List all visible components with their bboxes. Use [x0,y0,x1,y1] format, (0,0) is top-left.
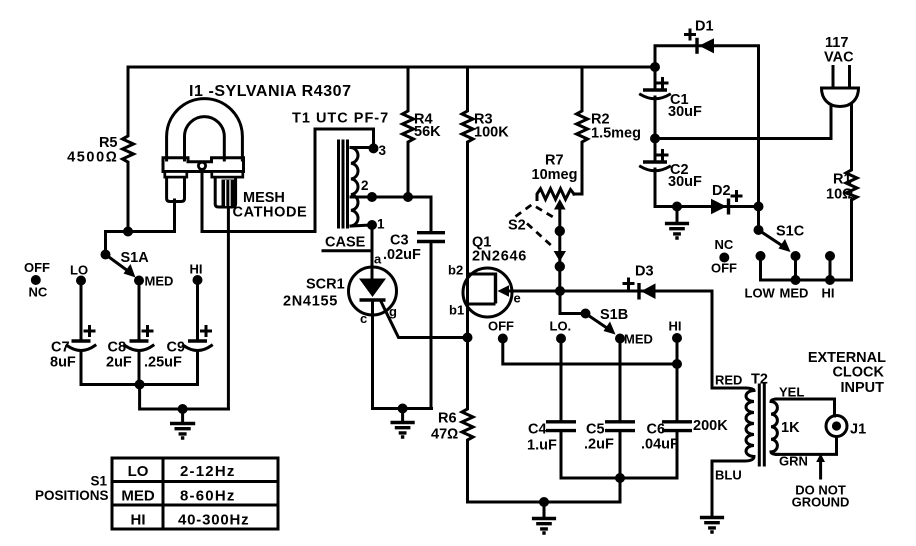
svg-text:INPUT: INPUT [841,380,885,396]
svg-text:MED: MED [145,274,174,289]
wire mesh cathode down to ground rail [227,204,230,409]
svg-text:S1: S1 [90,474,107,489]
wire S1B OFF/HI/C6 rail [503,339,677,365]
SCR1 2N4155 body [349,267,397,315]
svg-text:8uF: 8uF [50,355,76,371]
capacitor C7 8uF [80,281,83,385]
lamp I1 right leg [215,172,235,208]
capacitor C6 .04uF plates [662,422,692,431]
wire lamp starter probe to T1 pin 3 [202,129,374,232]
svg-text:b1: b1 [449,303,464,318]
svg-text:R1: R1 [833,172,852,188]
node R4 bottom junction [403,192,413,202]
wire S1B HI drop [676,338,679,364]
diode D1 [695,38,698,54]
node emitter junction [555,286,565,296]
node S1C MED [791,251,801,261]
wire C2 ground to D2 to D1 junction [677,205,759,208]
plug 117 VAC body [822,88,859,107]
wire C4 column [561,339,620,479]
ground symbol SCR [401,409,404,422]
wire C6 column [620,364,677,478]
svg-text:2N2646: 2N2646 [472,249,527,265]
resistor R2 1.5meg [574,67,588,194]
svg-text:C9: C9 [167,340,186,356]
svg-text:2N4155: 2N4155 [283,294,338,310]
svg-text:40-300Hz: 40-300Hz [178,512,249,529]
transformer T2 core [759,385,764,465]
node R5 / lamp anode junction [123,227,133,237]
svg-text:.02uF: .02uF [383,247,421,263]
switch S1C arm [759,230,783,246]
svg-text:8-60Hz: 8-60Hz [180,488,236,505]
resistor R5 4500Ω [123,67,134,232]
node S1A MED [134,276,144,286]
svg-text:1.5meg: 1.5meg [591,126,641,142]
wire S1C HI drop [829,256,832,280]
capacitor C2 30uF [643,160,667,163]
svg-text:HI: HI [131,512,146,529]
transformer T2 secondary winding [771,399,778,454]
wire top supply rail [128,66,655,69]
wire rail to ground [140,385,229,410]
node gate/b1/R6 junction [463,333,473,343]
resistor R3 100K column [462,67,473,338]
svg-text:2uF: 2uF [106,355,132,371]
wire SCR anode from T1 pin1 [371,225,374,280]
svg-text:c: c [360,311,367,326]
ground symbol left caps [181,409,184,422]
svg-text:D3: D3 [635,264,654,280]
svg-text:200K: 200K [693,418,728,434]
wire T2 BLU to ground [712,461,744,516]
svg-text:POSITIONS: POSITIONS [35,488,109,503]
svg-text:S1C: S1C [776,224,805,240]
node SCR ground junction [398,404,408,414]
wire S1C rail [761,256,852,280]
svg-text:SCR1: SCR1 [306,277,345,293]
transformer T2 primary winding [744,388,754,461]
svg-text:C5: C5 [586,422,605,438]
svg-text:CLOCK: CLOCK [832,365,884,381]
jack J1 [826,416,847,437]
switch S1C pivot node [754,225,764,235]
transformer T1 core [339,141,348,227]
ground symbol T2 BLU [700,518,724,533]
wire S1C MED drop [794,256,797,280]
node T1 pin 2 [367,192,377,202]
lamp I1 collar base [163,158,244,172]
wire C1 leads [654,67,657,139]
svg-text:LOW: LOW [745,286,776,301]
svg-text:I1 -SYLVANIA R4307: I1 -SYLVANIA R4307 [189,83,352,100]
svg-text:T2: T2 [751,372,768,388]
svg-text:4500Ω: 4500Ω [67,150,118,166]
switch S1A pivot node [101,250,111,260]
lamp I1 probe terminal circle [198,162,205,169]
ground symbol R6 rail [543,502,546,517]
wire S2 wiper column [558,207,561,291]
resistor R6 47Ω column [462,338,473,503]
node C1/C2 plug junction [650,134,660,144]
svg-text:10Ω: 10Ω [826,187,853,203]
node C8 bottom rail junction [135,380,145,390]
switch S2 contact node lower [555,261,565,271]
switch S2 wiper arrow [554,199,566,210]
wire lamp left lead [128,200,175,232]
transformer T1 winding [351,148,358,227]
wire S1B pivot link [560,291,585,314]
wire emitter line Q1 to D3 to T2 RED [508,291,746,388]
wire C5 column [619,339,622,479]
wire T1 pin1 tap [351,225,372,226]
lamp I1 outer tube [167,99,243,160]
wire plug line to C1/C2 junction [655,103,831,139]
ground symbol C2 [676,207,679,223]
svg-text:1.uF: 1.uF [527,438,557,454]
svg-text:NC: NC [29,285,48,300]
node S1C rail HI [825,275,835,285]
node S1A OFF NC [31,275,41,285]
switch S1B arm [586,314,608,329]
svg-text:10meg: 10meg [532,167,578,183]
svg-text:3: 3 [379,143,387,158]
svg-text:OFF: OFF [711,261,737,276]
wire C2 leads [655,139,677,207]
wire C3 bottom [430,243,433,409]
node T1 pin 3 [369,143,379,153]
capacitor C1 30uF [643,88,667,91]
svg-text:S2: S2 [508,218,526,234]
svg-text:YEL: YEL [779,385,804,400]
wire T2 YEL to J1 [776,399,835,416]
svg-text:GROUND: GROUND [792,495,850,510]
lamp I1 mesh cathode element [222,180,235,207]
svg-text:.25uF: .25uF [144,355,182,371]
svg-text:OFF: OFF [488,319,514,334]
do-not-ground pointer arrow [819,460,822,478]
svg-text:S1A: S1A [121,250,150,266]
node S1B HI [672,333,682,343]
svg-text:C7: C7 [51,340,70,356]
node S1B MED [615,334,625,344]
svg-text:S1B: S1B [600,307,628,323]
svg-text:NC: NC [715,237,734,252]
diode D2 [727,199,730,215]
node S1A LO [76,276,86,286]
svg-text:HI: HI [190,262,203,277]
potentiometer R7 10meg horizontal [537,189,574,200]
lamp I1 collar skirts [165,172,187,178]
svg-text:e: e [514,291,521,306]
svg-text:VAC: VAC [824,50,854,66]
resistor R1 10Ω column from plug [846,103,857,280]
svg-text:BLU: BLU [715,468,742,483]
node ground junction left [178,404,188,414]
svg-text:.04uF: .04uF [641,437,679,453]
capacitor C9 .25uF [196,280,199,385]
svg-text:LO: LO [70,263,88,278]
node S1C NC [719,253,729,263]
svg-text:D1: D1 [695,19,714,35]
capacitor C8 2uF [138,281,141,385]
svg-text:CATHODE: CATHODE [233,205,308,221]
wire T2 GRN to J1 [776,437,837,454]
node S1C rail MED [791,275,801,285]
svg-text:C8: C8 [108,340,127,356]
svg-text:56K: 56K [414,124,441,140]
svg-text:HI: HI [822,286,835,301]
svg-text:LO.: LO. [550,319,572,334]
svg-text:100K: 100K [474,125,509,141]
table S1 positions frame [112,458,278,529]
wire D1 branch loop [655,46,759,230]
svg-text:OFF: OFF [24,260,50,275]
wire T1 pin2 to R4 and C3 [372,197,431,231]
wire SCR cathode to ground rail [373,300,432,409]
svg-text:2-12Hz: 2-12Hz [180,463,236,480]
svg-text:C6: C6 [647,422,666,438]
node R6 rail ground junction [539,497,549,507]
svg-text:30uF: 30uF [668,104,702,120]
switch S2 dashed linkage [516,205,554,218]
svg-text:LO: LO [128,463,149,480]
svg-text:CASE: CASE [325,235,366,251]
capacitor C3 .02uF [417,233,445,242]
node S1C HI [825,251,835,261]
svg-text:b2: b2 [448,263,463,278]
switch S1B pivot node [581,309,591,319]
node D1/D2 junction [754,202,764,212]
svg-text:GRN: GRN [779,454,808,469]
svg-text:.2uF: .2uF [584,437,614,453]
lamp I1 inner tube [185,117,225,160]
capacitor C5 .2uF plates [605,422,635,431]
node C2 ground junction [672,202,682,212]
svg-text:R6: R6 [438,411,457,427]
svg-text:D2: D2 [712,183,731,199]
resistor R4 56K [403,67,414,197]
svg-text:T1 UTC PF-7: T1 UTC PF-7 [292,111,389,127]
lamp I1 left leg [167,172,185,202]
svg-text:g: g [389,304,397,319]
svg-text:MED: MED [624,332,653,347]
svg-text:a: a [374,252,382,267]
svg-text:30uF: 30uF [668,174,702,190]
svg-text:1: 1 [377,217,385,232]
wire C7/C8/C9 bottom rail [81,383,198,386]
wire junction to S1A pivot [106,232,129,255]
svg-text:J1: J1 [850,422,866,438]
svg-text:47Ω: 47Ω [431,427,458,443]
svg-text:MED: MED [780,286,809,301]
node S1A HI [193,275,203,285]
svg-text:RED: RED [715,373,742,388]
svg-text:2: 2 [361,178,369,193]
diode D3 [637,283,640,300]
node S1B OFF [498,334,508,344]
switch S1A arm [106,255,129,272]
wire T1 pin3 tap [351,146,374,149]
switch S2 contact node upper [555,226,565,236]
wire T1 pin2 tap [351,196,372,199]
node T1 pin 1 [367,220,377,230]
node C5 bottom junction [615,473,625,483]
svg-text:MED: MED [121,488,155,505]
node S1B rail C6 junction [672,359,682,369]
node S1B LO [556,334,566,344]
plug 117 VAC prongs [833,67,850,89]
switch S2 arm arrowhead [554,251,566,262]
svg-text:1K: 1K [781,420,800,436]
capacitor C4 1.uF plates [546,422,576,431]
wire SCR gate to b1 junction [381,301,468,338]
svg-text:C4: C4 [528,422,547,438]
unijunction Q1 2N2646 body [463,268,512,317]
wire bottom rail R6 to C5 [468,478,621,502]
node C1 top rail junction [650,62,660,72]
svg-text:HI: HI [669,319,682,334]
node S1C LOW [756,251,766,261]
